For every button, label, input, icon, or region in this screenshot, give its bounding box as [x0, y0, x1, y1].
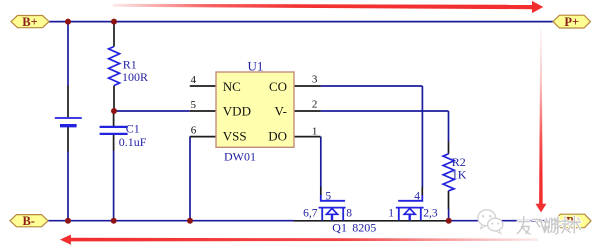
- svg-text:4: 4: [191, 74, 197, 86]
- current-flow arrow top (red): [113, 1, 543, 13]
- current-flow arrow right side (red, downward): [536, 30, 547, 212]
- pin stubs U1 (black): [190, 86, 321, 137]
- op-amp U1 body (DW01 IC): [216, 72, 294, 147]
- node battery/top rail: [65, 19, 71, 25]
- battery BT (plates): [55, 118, 82, 126]
- resistor R1: [109, 47, 120, 86]
- svg-text:0.1uF: 0.1uF: [119, 135, 147, 149]
- svg-text:R1: R1: [123, 57, 137, 71]
- svg-text:4: 4: [414, 191, 420, 203]
- node R1/top rail: [111, 19, 117, 25]
- svg-text:B+: B+: [22, 15, 37, 29]
- wire: R2 bottom to rail: [448, 209, 450, 221]
- transistor Q1a (left FET of 8205): [319, 195, 346, 221]
- wire: V- net horizontal: [321, 110, 449, 112]
- svg-text:5: 5: [191, 99, 197, 111]
- svg-text:5: 5: [325, 191, 331, 203]
- svg-text:8205: 8205: [352, 220, 376, 234]
- body-diode arrow Q1a: [326, 208, 337, 214]
- svg-text:VDD: VDD: [223, 103, 251, 118]
- svg-text:DO: DO: [268, 128, 287, 143]
- svg-text:CO: CO: [269, 79, 287, 94]
- svg-text:1K: 1K: [452, 168, 467, 182]
- watermark WeChat icon: [478, 210, 503, 234]
- pin stubs R1 (black): [113, 22, 115, 111]
- svg-text:C1: C1: [126, 121, 140, 135]
- svg-text:2,3: 2,3: [423, 207, 438, 219]
- svg-text:NC: NC: [223, 79, 241, 94]
- svg-text:6,7: 6,7: [303, 207, 318, 219]
- svg-text:2: 2: [312, 99, 318, 111]
- wire: battery top: [67, 22, 69, 87]
- pin stubs battery (black): [67, 86, 69, 152]
- node VSS/bottom rail: [187, 218, 193, 224]
- capacitor C1: [100, 127, 128, 134]
- wire: CO net horizontal: [321, 85, 423, 87]
- wire: C1 bottom to rail: [113, 150, 115, 221]
- svg-text:Q1: Q1: [332, 220, 347, 234]
- port B+: [11, 15, 49, 29]
- current-flow arrow bottom (red, leftward): [60, 235, 538, 245]
- pin stubs C1 (black): [113, 112, 115, 151]
- svg-text:8: 8: [346, 207, 352, 219]
- svg-text:U1: U1: [248, 58, 264, 73]
- node R2/bottom rail: [446, 218, 452, 224]
- wire: V- net vertical to R2: [448, 111, 450, 142]
- wire: VSS pin 6 down to rail: [189, 137, 191, 221]
- node R1/C1/VDD: [111, 108, 117, 114]
- svg-text:100R: 100R: [122, 70, 148, 84]
- svg-text:1: 1: [388, 207, 394, 219]
- resistor R2: [443, 154, 454, 191]
- wire: top rail B+ to P+: [49, 21, 553, 23]
- svg-text:DW01: DW01: [224, 149, 256, 163]
- port P-: [554, 214, 591, 228]
- pin row Q1 bottom (black, pins 6,7 / 8 / 1 / 2,3): [294, 220, 449, 222]
- body-diode arrow Q1b: [404, 208, 415, 214]
- wire: bottom rail left section: [48, 220, 294, 222]
- svg-text:1: 1: [312, 126, 318, 138]
- svg-text:P+: P+: [564, 15, 579, 29]
- wire: bottom rail right section: [449, 220, 554, 222]
- node battery/bottom rail: [65, 218, 71, 224]
- svg-text:V-: V-: [274, 103, 287, 118]
- transistor Q1b (right FET of 8205): [396, 195, 424, 221]
- watermark text (stylized hanzi strokes): [517, 217, 580, 235]
- svg-text:6: 6: [191, 125, 197, 137]
- node C1/bottom rail: [111, 218, 117, 224]
- svg-text:VSS: VSS: [223, 128, 247, 143]
- svg-text:B-: B-: [22, 214, 35, 228]
- port B-: [10, 214, 48, 228]
- wire: DO net down to Q1 gate pin5: [320, 137, 322, 188]
- port P+: [553, 15, 591, 29]
- wire: battery bottom: [67, 151, 69, 221]
- svg-text:3: 3: [312, 74, 318, 86]
- wire: CO net vertical to Q1 gate pin4: [421, 86, 423, 188]
- pin stubs R2 (black): [448, 142, 450, 210]
- wire: VDD net (junction to pin 5): [114, 110, 190, 112]
- pin stubs Q1 gates (black): [321, 187, 423, 196]
